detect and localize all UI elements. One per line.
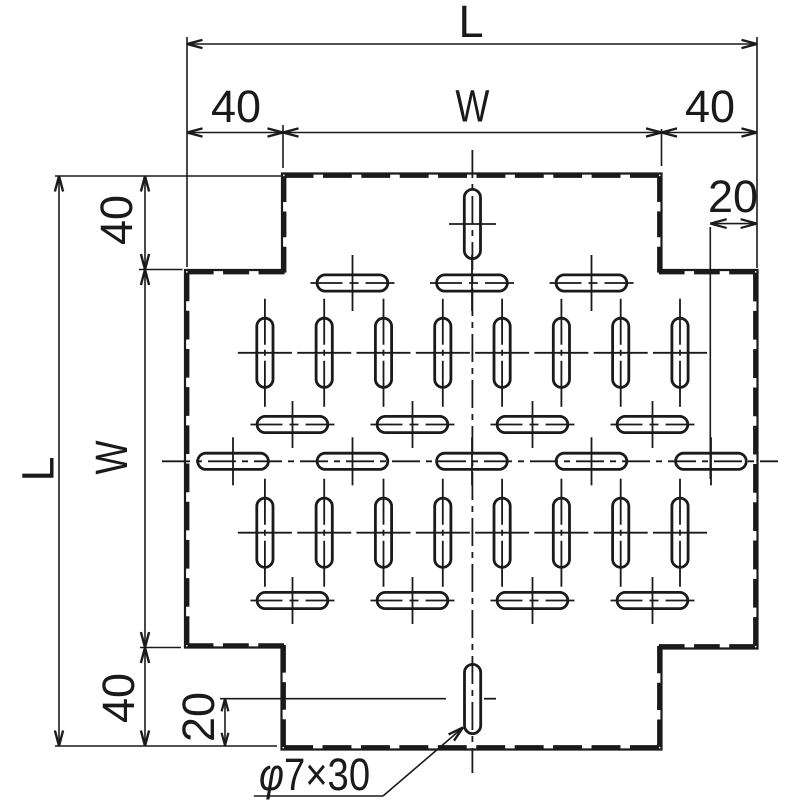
svg-text:φ7×30: φ7×30 [259,749,370,800]
svg-text:W: W [455,81,489,132]
svg-text:40: 40 [211,81,261,132]
svg-text:40: 40 [91,195,142,245]
svg-text:40: 40 [685,81,735,132]
svg-text:20: 20 [708,171,758,222]
svg-text:L: L [13,456,64,481]
svg-text:L: L [458,0,483,47]
svg-text:20: 20 [173,692,224,742]
svg-text:W: W [86,440,137,474]
svg-text:40: 40 [93,673,144,723]
